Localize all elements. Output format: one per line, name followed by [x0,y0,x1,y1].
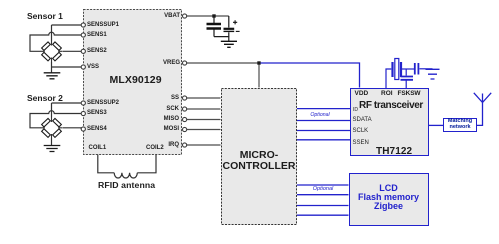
IC U1 MLX90129 body [83,9,182,155]
sensor bridge 2 [42,118,62,137]
pin circle SENSSUP2 [81,101,85,105]
wire SS [187,97,221,99]
pin circle MOSI [183,127,187,131]
pin label VREG [130,60,180,66]
sensor bridge 1 [42,42,62,61]
pin label SENSSUP1 [87,22,119,28]
bus micro to LCD line4 [297,214,349,216]
wire VREG to VDD (blue) [261,63,360,88]
label MICRO-CONTROLLER [221,150,297,171]
bridge 2 vertex stubs [40,118,62,139]
pin label SDATA [353,117,372,123]
pin label VBAT [130,13,180,19]
capacitor C2 polarized [228,16,230,37]
pin label ROI [381,90,393,97]
bus micro to LCD line1 [297,184,349,186]
pin label SS [130,95,179,101]
wire bridge2 bottom to ground [51,138,53,145]
ground sensor 1 [44,73,61,79]
pin label VSS [87,64,99,70]
ground sensor 2 [44,146,61,152]
wire SENSSUP2 to bridge2 top [52,103,82,118]
wire IRQ [187,144,221,146]
wire SENSSUP1 to bridge1 top [52,25,82,41]
pin circle IRQ [183,143,187,147]
peripheral block LCD / Flash memory / Zigbee body [349,173,429,226]
pin label SENSSUP2 [87,100,119,106]
pin circle SENSSUP1 [81,23,85,27]
pin circle SENS2 [81,49,85,53]
wire caps to ground [214,37,229,41]
pin label IRQ [130,142,179,148]
pin circle SENS4 [81,127,85,131]
microcontroller U2 dashed outline [222,89,297,225]
capacitor C3 to FSKSW [405,69,407,88]
pin circle VSS [81,65,85,69]
wire VBAT [187,15,229,17]
pin label SENS4 [87,126,107,132]
matching network block body [443,118,477,132]
pin label ID [353,107,358,113]
RF transceiver U3 TH7122 body [350,88,429,156]
wire COIL2 [137,155,156,173]
bridge 1 vertex stubs [40,41,62,62]
capacitor C1 [213,16,215,37]
crystal X1 [393,59,402,80]
antenna [474,93,491,103]
pin label SCK [130,106,179,112]
pin label MISO [130,116,179,122]
pin label SENS1 [87,32,107,38]
wire SCK [187,108,221,110]
wire SENS1 loop with hop [30,32,81,51]
plus sign C2 [233,20,237,24]
block title RF transceiver [359,100,423,111]
pin circle SENS1 [81,33,85,37]
IC U1 MLX90129 dashed outline [84,10,182,155]
bus micro to ID (optional) [297,108,350,110]
pin circle SCK [183,107,187,111]
junction VREG [257,61,260,64]
wire VREG to junction [187,62,259,64]
wire SENS2 [63,50,81,52]
pin label FSKSW [398,90,421,97]
bus micro to LCD line3 [297,205,349,207]
wire RF to matching network [429,124,443,126]
pin circle SS [183,96,187,100]
pin circle SENS3 [81,111,85,115]
pin circle MISO [183,117,187,121]
wire MISO [187,119,221,121]
wire crystal to caps [402,68,414,70]
label Sensor 2 [27,93,63,103]
bus micro to SCLK [297,130,350,132]
ground crystal [426,69,440,79]
bus micro to LCD line2 [297,194,349,196]
wire VSS [52,62,82,73]
junction VBAT [212,14,215,17]
pin label VDD [355,90,369,97]
wire C4 to ground [420,68,433,70]
part name TH7122 [376,146,412,157]
pin label COIL2 [146,145,164,151]
label Sensor 1 [27,11,63,21]
wire ROI to crystal [386,69,391,88]
pin label SCLK [353,128,369,134]
wire SENS4 [63,128,81,129]
wire matching network to antenna [477,103,483,126]
part name MLX90129 [110,74,162,86]
pin label SSEN [353,140,369,146]
inductor RFID antenna coil [114,173,137,178]
pin circle VREG [183,61,187,65]
pin label COIL1 [89,145,107,151]
pin label MOSI [130,126,179,132]
pin label SENS3 [87,110,107,116]
wire MOSI [187,129,221,131]
wire COIL1 [98,155,114,173]
ground VBAT caps [221,41,237,47]
minus sign C2 [236,30,240,32]
wire SENS3 loop with hop [30,111,81,128]
capacitor C4 [415,63,419,75]
pin label SENS2 [87,48,107,54]
bus micro to SSEN [297,139,350,141]
wire junction down to microcontroller [258,63,260,88]
label Matching network [443,119,477,130]
optional bus tag 1 [310,112,330,118]
bus micro to SDATA [297,120,350,122]
label LCD Flash memory Zigbee [349,184,429,212]
pin circle VBAT [183,14,187,18]
optional bus tag 2 [311,186,335,192]
microcontroller U2 body [221,88,297,225]
label RFID antenna [98,180,155,190]
